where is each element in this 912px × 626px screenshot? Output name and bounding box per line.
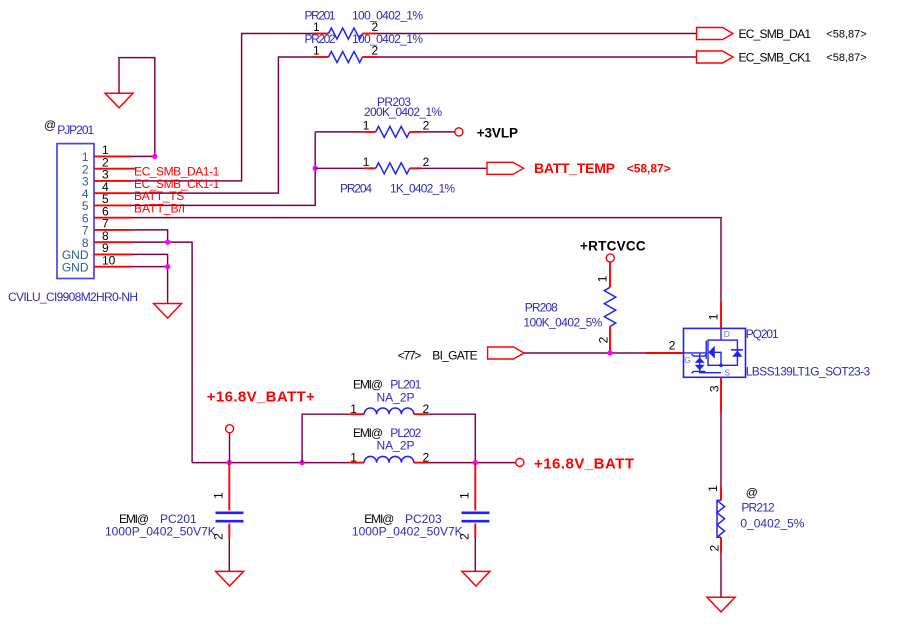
power node +16.8V_BATT+: [207, 389, 315, 463]
wire pin8 to battery rail: [132, 242, 193, 462]
wire PL201 to rail: [428, 414, 475, 462]
transistor PQ201: [669, 313, 871, 392]
junction BI_GATE / PR208: [607, 350, 612, 355]
svg-text:1000P_0402_50V7K: 1000P_0402_50V7K: [352, 525, 463, 539]
svg-text:2: 2: [372, 44, 379, 58]
svg-text:NA_2P: NA_2P: [377, 438, 415, 452]
svg-text:S: S: [724, 368, 730, 378]
svg-text:1: 1: [313, 44, 320, 58]
svg-text:1000P_0402_50V7K: 1000P_0402_50V7K: [105, 525, 216, 539]
power node +3VLP: [455, 125, 518, 140]
resistor PR212: [706, 485, 805, 553]
svg-text:<58,87>: <58,87>: [826, 52, 866, 64]
wire PR204 to BATT_TEMP flag: [421, 167, 487, 169]
wire PR202 to EC_SMB_CK1 flag: [378, 56, 697, 58]
wire PR212 to ground: [720, 553, 722, 597]
pin 3 of PJP201: [94, 168, 132, 182]
junction rail at PC201: [227, 460, 232, 465]
svg-text:100_0402_1%: 100_0402_1%: [352, 32, 423, 46]
svg-text:100K_0402_5%: 100K_0402_5%: [523, 315, 602, 329]
capacitor PC203: [352, 463, 490, 540]
svg-text:2: 2: [669, 338, 676, 352]
flag BATT_TEMP: [487, 160, 671, 176]
wire net EC_SMB_CK1-1 (pin4 to PR202): [132, 57, 314, 193]
svg-text:100_0402_1%: 100_0402_1%: [352, 9, 423, 23]
svg-text:@: @: [746, 486, 758, 500]
svg-text:NA_2P: NA_2P: [377, 390, 415, 404]
svg-text:+16.8V_BATT+: +16.8V_BATT+: [207, 389, 315, 406]
svg-text:2: 2: [708, 545, 722, 552]
svg-text:+3VLP: +3VLP: [477, 125, 518, 140]
ground (PC201): [216, 571, 244, 586]
wire pin2 stub only: [132, 168, 137, 170]
svg-text:BI_GATE: BI_GATE: [432, 349, 477, 363]
junction rail at PL201 branch: [299, 460, 304, 465]
svg-text:1: 1: [350, 402, 357, 416]
wire pin1 to ground loop: [119, 58, 155, 157]
svg-text:1: 1: [596, 275, 610, 282]
svg-text:PQ201: PQ201: [746, 327, 779, 341]
svg-text:1: 1: [350, 450, 357, 464]
svg-text:1: 1: [212, 492, 226, 499]
svg-text:+RTCVCC: +RTCVCC: [580, 238, 646, 253]
resistor PR204: [340, 155, 455, 196]
pin 4 of PJP201: [94, 180, 132, 194]
svg-text:PR212: PR212: [741, 501, 775, 515]
wire net EC_SMB_DA1-1 (pin3 to PR201): [132, 34, 314, 181]
svg-text:<77>: <77>: [398, 349, 422, 363]
junction PR204 row: [313, 166, 318, 171]
svg-text:BATT_TEMP: BATT_TEMP: [534, 160, 615, 176]
svg-text:PR204: PR204: [340, 182, 372, 196]
svg-text:2: 2: [458, 533, 472, 540]
svg-text:1: 1: [706, 485, 720, 492]
pin 1 of PJP201: [94, 143, 132, 157]
resistor PR202: [305, 32, 424, 63]
flag EC_SMB_DA1: [697, 27, 867, 41]
svg-text:0_0402_5%: 0_0402_5%: [740, 517, 804, 531]
svg-text:PR201: PR201: [305, 9, 336, 23]
junction pin10: [165, 264, 170, 269]
pin 2 of PJP201: [94, 155, 132, 169]
svg-text:2: 2: [423, 155, 430, 169]
ground (pins 9-10): [154, 304, 182, 319]
inductor PL201: [350, 378, 430, 417]
svg-text:EC_SMB_CK1: EC_SMB_CK1: [739, 50, 812, 64]
wire pin7 to pin8: [132, 230, 168, 242]
flag BI_GATE: [398, 347, 524, 363]
svg-text:BATT_B/I: BATT_B/I: [134, 201, 185, 215]
wire BI_GATE to PQ201 gate: [524, 352, 646, 354]
svg-text:G: G: [684, 355, 691, 365]
svg-text:2: 2: [597, 336, 611, 343]
wire PR203 to +3VLP: [421, 131, 455, 133]
svg-text:EC_SMB_DA1: EC_SMB_DA1: [739, 27, 812, 41]
junction rail at PC203: [473, 460, 478, 465]
svg-text:@: @: [44, 118, 56, 132]
ground (PC203): [462, 571, 490, 586]
svg-text:<58,87>: <58,87>: [627, 161, 671, 175]
pin 10 of PJP201: [94, 253, 132, 267]
resistor PR201: [305, 9, 424, 40]
svg-text:200K_0402_1%: 200K_0402_1%: [364, 105, 442, 119]
wire net BATT_TS (pin5 to PR203/PR204): [132, 132, 316, 206]
capacitor PC201: [105, 463, 244, 540]
svg-text:PJP201: PJP201: [57, 123, 94, 137]
wire PC201 to ground: [228, 538, 230, 571]
wire junction to PR204: [315, 167, 364, 169]
svg-text:1: 1: [458, 492, 472, 499]
svg-text:+16.8V_BATT: +16.8V_BATT: [534, 455, 634, 472]
pin 9 of PJP201: [94, 241, 132, 255]
pin 6 of PJP201: [94, 204, 132, 218]
junction pin8: [165, 239, 170, 244]
resistor PR203: [363, 95, 443, 137]
ground (PR212): [707, 597, 735, 612]
pin 8 of PJP201: [94, 229, 132, 243]
resistor PR208: [523, 262, 615, 353]
power node +RTCVCC: [580, 238, 646, 262]
wire PL202 to +16.8V_BATT: [428, 462, 516, 464]
inductor PL202: [350, 426, 430, 464]
pin 5 of PJP201: [94, 192, 132, 206]
svg-text:2: 2: [423, 119, 430, 133]
wire pin9 to pin10: [132, 254, 168, 266]
svg-text:CVILU_CI9908M2HR0-NH: CVILU_CI9908M2HR0-NH: [8, 290, 138, 304]
wire PL201 branch: [302, 414, 350, 462]
svg-text:PR208: PR208: [525, 300, 558, 314]
junction pin1: [152, 154, 157, 159]
svg-text:2: 2: [212, 533, 226, 540]
svg-text:<58,87>: <58,87>: [826, 28, 866, 40]
wire drain stub: [720, 302, 722, 328]
svg-text:3: 3: [708, 385, 722, 392]
svg-text:10: 10: [102, 253, 116, 267]
wire source to PR212: [720, 377, 722, 412]
svg-text:PR202: PR202: [305, 32, 336, 46]
wire battery rail: [192, 462, 350, 464]
wire gate stub: [646, 352, 684, 354]
wire pin10 to ground: [132, 267, 168, 304]
connector PJP201: [8, 118, 138, 304]
svg-text:D: D: [724, 329, 730, 339]
power node +16.8V_BATT: [516, 455, 634, 472]
svg-text:LBSS139LT1G_SOT23-3: LBSS139LT1G_SOT23-3: [746, 365, 871, 379]
wire PR201 to EC_SMB_DA1 flag: [378, 33, 697, 35]
wire net BATT_B/I (pin6 to PQ201 drain): [132, 218, 722, 302]
wire BATT_TS vertical to PR203 row: [315, 131, 364, 133]
svg-text:GND: GND: [62, 260, 89, 274]
svg-text:1: 1: [363, 119, 370, 133]
pin 7 of PJP201: [94, 217, 132, 231]
svg-text:1: 1: [363, 155, 370, 169]
svg-text:1: 1: [707, 313, 721, 320]
wire PC203 to ground: [474, 538, 476, 571]
ground (top left): [105, 93, 133, 108]
svg-text:1K_0402_1%: 1K_0402_1%: [390, 182, 455, 196]
flag EC_SMB_CK1: [697, 50, 867, 64]
